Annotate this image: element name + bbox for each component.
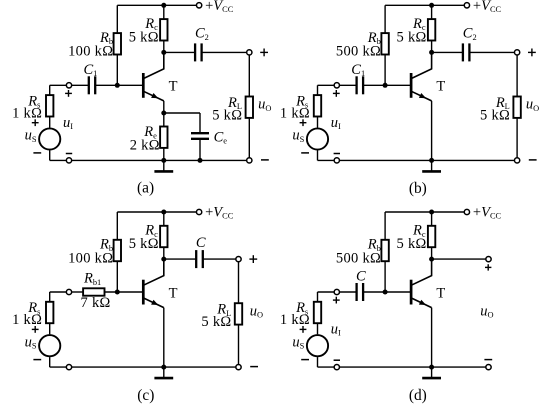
svg-text:uI: uI — [63, 115, 73, 131]
transistor T emitter (a) — [143, 91, 164, 101]
+Vcc terminal (c) — [196, 209, 201, 214]
wire Rs top (a) — [49, 85, 51, 95]
node emitter ground junction (d) — [429, 365, 434, 370]
wire Rb1 to base (c) — [105, 291, 144, 293]
wire source bottom (d) — [317, 357, 319, 367]
wire bottom left (a) — [50, 159, 66, 161]
label output + (d) — [485, 264, 491, 270]
wire Rb bottom (c) — [116, 261, 118, 292]
label source - (d) — [301, 359, 309, 361]
svg-text:uS: uS — [25, 334, 37, 350]
wire source bottom (b) — [317, 150, 319, 160]
resistor Rc (c) — [160, 226, 167, 247]
wire Rs top (d) — [317, 292, 319, 302]
wire RL bottom (c) — [238, 325, 240, 365]
svg-text:+VCC: +VCC — [473, 205, 502, 221]
svg-text:1 kΩ: 1 kΩ — [280, 105, 310, 121]
svg-text:5 kΩ: 5 kΩ — [480, 107, 510, 123]
input terminal (a) — [66, 83, 71, 88]
svg-text:100 kΩ: 100 kΩ — [68, 44, 113, 60]
svg-text:Ce: Ce — [214, 130, 228, 146]
node base junction (b) — [383, 83, 388, 88]
wire Rb top (d) — [384, 212, 386, 240]
svg-text:C: C — [356, 269, 366, 285]
resistor Rc (d) — [428, 226, 435, 247]
label output + (a) — [260, 49, 268, 57]
wire bottom left (c) — [50, 366, 66, 368]
label output - (d) — [484, 359, 492, 361]
resistor Rc (a) — [160, 19, 167, 40]
wire RL bottom (b) — [516, 118, 518, 158]
svg-text:500 kΩ: 500 kΩ — [336, 44, 381, 60]
wire C out to output (c) — [203, 258, 236, 260]
wire RL top (b) — [516, 55, 518, 97]
wire Rs bottom (b) — [317, 117, 319, 128]
wire emitter (c) — [163, 308, 165, 368]
wire Rs top (c) — [49, 292, 51, 302]
wire Rb bottom (a) — [116, 55, 118, 86]
node emitter ground junction (c) — [161, 365, 166, 370]
node emitter ground junction (b) — [429, 158, 434, 163]
+Vcc terminal (a) — [196, 3, 201, 8]
node Ce ground junction (a) — [198, 158, 203, 163]
resistor Rs (d) — [314, 302, 321, 323]
output - terminal (c) — [236, 364, 241, 369]
wire +Vcc rail (b) — [385, 4, 464, 6]
resistor Rb (b) — [381, 33, 388, 54]
label source - (b) — [301, 152, 309, 154]
input terminal (d) — [334, 289, 339, 294]
label input + (b) — [333, 90, 340, 97]
svg-text:1 kΩ: 1 kΩ — [280, 312, 310, 328]
wire source bottom (a) — [49, 150, 51, 160]
svg-text:uS: uS — [292, 334, 304, 350]
svg-text:C2: C2 — [463, 26, 477, 42]
output + terminal (b) — [514, 50, 519, 55]
svg-text:+VCC: +VCC — [205, 0, 234, 14]
wire Rb bottom (b) — [384, 55, 386, 86]
wire C1 to base (b) — [363, 84, 411, 86]
ground (a) — [154, 160, 173, 171]
wire Rs bottom (a) — [49, 117, 51, 128]
svg-text:uO: uO — [250, 303, 263, 319]
output + terminal (c) — [236, 256, 241, 261]
transistor T base bar (b) — [410, 73, 413, 98]
svg-text:7 kΩ: 7 kΩ — [81, 295, 111, 311]
output - terminal (b) — [514, 158, 519, 163]
transistor T collector (d) — [411, 259, 432, 285]
+Vcc terminal (d) — [464, 209, 469, 214]
label output + (c) — [249, 255, 257, 263]
wire C1 to base (a) — [95, 84, 143, 86]
resistor RL (a) — [246, 97, 253, 118]
resistor Rs (c) — [46, 302, 53, 323]
svg-text:T: T — [169, 285, 178, 301]
wire +Vcc rail (d) — [385, 211, 464, 213]
svg-text:T: T — [436, 285, 445, 301]
wire Rc bottom (d) — [431, 247, 433, 259]
wire input to C1 (a) — [72, 84, 89, 86]
wire Re bottom (a) — [163, 148, 165, 161]
resistor Rs (a) — [46, 95, 53, 116]
label uI - (a) — [66, 153, 72, 155]
wire Rc top (d) — [431, 212, 433, 226]
input bottom terminal (b) — [334, 158, 339, 163]
svg-text:uI: uI — [331, 115, 341, 131]
svg-text:5 kΩ: 5 kΩ — [201, 314, 231, 330]
transistor T emitter (c) — [143, 298, 164, 308]
capacitor Cout (c) — [196, 250, 203, 268]
wire emitter (b) — [431, 101, 433, 160]
wire Ce top (a) — [199, 113, 201, 133]
output + terminal (d) — [486, 256, 491, 261]
svg-text:C1: C1 — [351, 62, 365, 78]
wire Rc bottom (a) — [163, 41, 165, 53]
svg-text:uS: uS — [25, 128, 37, 144]
source uS (b) — [307, 128, 328, 149]
wire Rb top (c) — [116, 212, 118, 240]
wire Rs bottom (c) — [49, 323, 51, 334]
capacitor Cin (d) — [357, 283, 364, 301]
wire source bottom (c) — [49, 357, 51, 367]
node base junction (c) — [115, 290, 120, 295]
wire Rc bottom (b) — [431, 41, 433, 53]
source uS (c) — [39, 335, 60, 356]
node collector junction (c) — [161, 257, 166, 262]
svg-text:uO: uO — [480, 304, 493, 320]
ground (b) — [422, 160, 441, 171]
label output - (b) — [529, 159, 537, 161]
svg-text:C2: C2 — [195, 26, 209, 42]
output - terminal (a) — [247, 158, 252, 163]
label source + (d) — [300, 326, 307, 333]
wire C out to output (a) — [202, 51, 247, 53]
wire emitter (a) — [163, 101, 165, 113]
svg-text:5 kΩ: 5 kΩ — [129, 29, 159, 45]
wire RL bottom (a) — [248, 118, 250, 158]
wire Rs bottom (d) — [317, 323, 319, 334]
svg-text:+VCC: +VCC — [205, 205, 234, 221]
wire bottom left (b) — [318, 159, 335, 161]
resistor Rc (b) — [428, 19, 435, 40]
transistor T collector (b) — [411, 52, 432, 78]
wire Re top (a) — [163, 113, 165, 127]
resistor RL (c) — [235, 303, 242, 324]
wire +Vcc rail (c) — [117, 211, 196, 213]
svg-text:T: T — [436, 79, 445, 95]
node collector junction (d) — [429, 257, 434, 262]
label source + (b) — [300, 119, 307, 126]
wire emitter to Ce (a) — [164, 112, 200, 114]
input terminal (b) — [334, 83, 339, 88]
node collector-rail junction (d) — [429, 210, 434, 215]
wire Rc top (c) — [163, 212, 165, 226]
label uI - (b) — [334, 153, 340, 155]
source uS (d) — [307, 335, 328, 356]
wire RL top (c) — [238, 262, 240, 304]
ground (c) — [154, 367, 173, 378]
transistor T emitter (d) — [411, 298, 432, 308]
svg-text:1 kΩ: 1 kΩ — [12, 312, 42, 328]
label source - (a) — [33, 152, 41, 154]
svg-text:2 kΩ: 2 kΩ — [130, 138, 160, 154]
wire bottom rail (d) — [340, 366, 486, 368]
capacitor Cout (a) — [195, 43, 202, 61]
svg-text:Rb1: Rb1 — [83, 271, 101, 287]
node collector-rail junction (c) — [161, 210, 166, 215]
svg-text:uO: uO — [526, 97, 539, 113]
wire input corner (d) — [318, 291, 335, 293]
label output - (c) — [250, 366, 258, 368]
svg-text:500 kΩ: 500 kΩ — [336, 250, 381, 266]
output - terminal (d) — [486, 364, 491, 369]
capacitor Cin (b) — [357, 76, 364, 94]
wire Rc top (b) — [431, 5, 433, 19]
resistor Re (a) — [160, 127, 167, 148]
wire Ce bottom (a) — [199, 139, 201, 161]
transistor T collector (c) — [143, 259, 164, 285]
svg-text:(d): (d) — [409, 387, 427, 404]
wire Rc top (a) — [163, 5, 165, 19]
svg-text:100 kΩ: 100 kΩ — [68, 250, 113, 266]
wire emitter (d) — [431, 308, 433, 368]
label input + (d) — [333, 297, 340, 304]
capacitor Ce (a) — [191, 133, 209, 139]
wire Rb bottom (d) — [384, 261, 386, 292]
wire C1 to base (d) — [363, 291, 411, 293]
input bottom terminal (a) — [66, 158, 71, 163]
resistor Rb1 (c) — [83, 288, 104, 295]
input bottom terminal (d) — [334, 364, 339, 369]
wire collector to C out (b) — [432, 51, 463, 53]
source uS (a) — [39, 128, 60, 149]
svg-text:(c): (c) — [137, 387, 154, 404]
wire input corner (b) — [318, 84, 335, 86]
label source + (c) — [32, 326, 39, 333]
wire input corner (c) — [50, 291, 66, 293]
svg-text:T: T — [169, 79, 178, 95]
label source + (a) — [32, 119, 39, 126]
label uI - (d) — [334, 359, 340, 361]
wire +Vcc rail (a) — [117, 4, 196, 6]
svg-text:uS: uS — [292, 128, 304, 144]
svg-text:1 kΩ: 1 kΩ — [12, 105, 42, 121]
output + terminal (a) — [247, 50, 252, 55]
svg-text:5 kΩ: 5 kΩ — [129, 236, 159, 252]
svg-text:C: C — [196, 235, 206, 251]
wire input to C1 (d) — [340, 291, 357, 293]
wire input corner (a) — [50, 84, 66, 86]
transistor T base bar (c) — [142, 280, 145, 305]
svg-text:5 kΩ: 5 kΩ — [212, 107, 242, 123]
wire input to Rb1 (c) — [72, 291, 83, 293]
wire Rs top (b) — [317, 85, 319, 95]
wire collector to output (d) — [432, 258, 486, 260]
wire bottom rail (c) — [72, 366, 236, 368]
wire collector to C out (a) — [164, 51, 195, 53]
capacitor Cout (b) — [463, 43, 470, 61]
wire collector to C out (c) — [164, 258, 196, 260]
input terminal (c) — [66, 289, 71, 294]
transistor T base bar (d) — [410, 280, 413, 305]
node collector junction (a) — [161, 50, 166, 55]
label input + (a) — [65, 90, 72, 97]
wire Rc bottom (c) — [163, 247, 165, 259]
label output + (b) — [528, 49, 536, 57]
svg-text:5 kΩ: 5 kΩ — [396, 236, 426, 252]
node collector junction (b) — [429, 50, 434, 55]
transistor T emitter (b) — [411, 91, 432, 101]
wire Rb top (a) — [116, 5, 118, 33]
resistor RL (b) — [513, 97, 520, 118]
label source - (c) — [33, 359, 41, 361]
resistor Rb (c) — [114, 240, 121, 261]
node base junction (d) — [383, 290, 388, 295]
svg-text:uO: uO — [258, 97, 271, 113]
wire bottom rail (a) — [72, 159, 247, 161]
node base junction (a) — [115, 83, 120, 88]
wire bottom left (d) — [318, 366, 335, 368]
transistor T base bar (a) — [142, 73, 145, 98]
node emitter ground junction (a) — [161, 158, 166, 163]
svg-text:(b): (b) — [409, 180, 427, 197]
wire C out to output (b) — [469, 51, 514, 53]
input bottom terminal (c) — [66, 364, 71, 369]
resistor Rs (b) — [314, 95, 321, 116]
resistor Rb (a) — [114, 33, 121, 54]
wire Rb top (b) — [384, 5, 386, 33]
+Vcc terminal (b) — [464, 3, 469, 8]
svg-text:5 kΩ: 5 kΩ — [396, 29, 426, 45]
wire input to C1 (b) — [340, 84, 357, 86]
node emitter junction (a) — [161, 111, 166, 116]
resistor Rb (d) — [381, 240, 388, 261]
ground (d) — [422, 367, 441, 378]
capacitor Cin (a) — [89, 76, 95, 94]
transistor T collector (a) — [143, 52, 164, 78]
svg-text:uI: uI — [331, 322, 341, 338]
wire RL top (a) — [248, 55, 250, 97]
label output - (a) — [261, 159, 269, 161]
node collector-rail junction (a) — [161, 3, 166, 8]
svg-text:C1: C1 — [84, 62, 98, 78]
svg-text:(a): (a) — [137, 180, 154, 197]
node collector-rail junction (b) — [429, 3, 434, 8]
svg-text:+VCC: +VCC — [473, 0, 502, 14]
wire bottom rail (b) — [340, 159, 515, 161]
